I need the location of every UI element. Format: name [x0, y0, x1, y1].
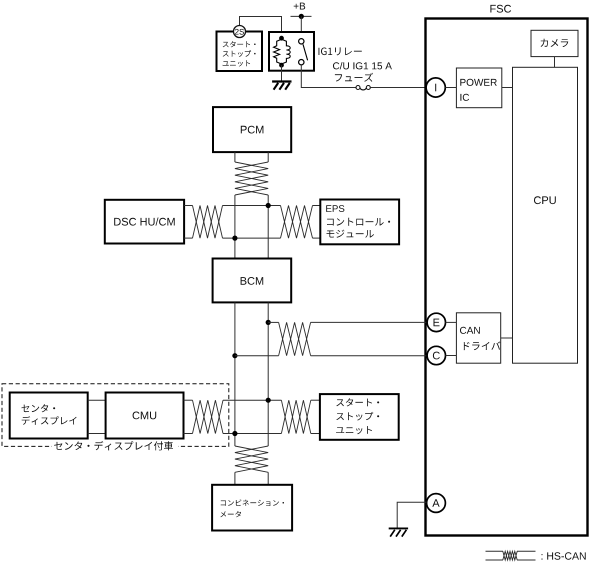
connector 2S	[234, 26, 246, 38]
junction: bus to pin C	[232, 353, 237, 358]
twisted pair: PCM to bus	[235, 162, 268, 195]
fuse F1	[356, 86, 370, 90]
junction: bus to pin E	[266, 320, 271, 325]
wire: pin C to CAN driver	[446, 355, 457, 357]
twisted pair: EPS to bus	[281, 206, 313, 239]
pin E	[427, 313, 445, 331]
wire: CAN-L to pin C	[311, 355, 427, 357]
wire: CAN bus vertical (upper)	[234, 195, 236, 259]
label C/U IG1 15 A fuse	[333, 62, 392, 69]
BCM box	[213, 259, 292, 303]
start-stop unit box (lower)	[320, 394, 399, 440]
wire: CAN-L CMU/start-stop	[223, 433, 281, 435]
wire: POWER IC to CPU	[502, 87, 513, 89]
wire: relay switch to FSC pin I	[301, 65, 355, 88]
start-stop unit box (top)	[217, 32, 263, 72]
legend label HS-CAN	[542, 552, 586, 559]
pin I	[426, 78, 445, 97]
junction: CAN-L at bus	[232, 236, 237, 241]
legend: HS-CAN twisted pair symbol	[486, 551, 536, 560]
wire: bus to C lattice	[235, 355, 279, 357]
relay switch S1	[299, 39, 308, 65]
POWER IC box	[456, 68, 501, 108]
wire: pin A to ground	[397, 502, 426, 528]
pin C	[427, 346, 445, 364]
wire: CAN driver to CPU	[501, 337, 513, 339]
twisted pair: bus to combination meter	[235, 446, 268, 472]
wire: CAN bus vertical (lower)	[234, 302, 236, 446]
ground (relay coil)	[272, 82, 291, 90]
wire: CAN-H to pin E	[311, 321, 427, 323]
wire: coil to ground	[281, 65, 283, 81]
label: with center display	[52, 441, 178, 452]
wire: start-stop stubs	[311, 399, 320, 401]
wire: CMU stubs	[184, 399, 193, 401]
wire: PCM bus stubs	[234, 152, 236, 162]
combination meter box	[212, 485, 292, 531]
junction: CAN-H lower at bus	[266, 398, 271, 403]
wire: pin I to POWER IC	[445, 87, 456, 89]
wire: bus to E lattice	[268, 321, 278, 323]
PCM box	[213, 107, 291, 152]
FSC box	[426, 19, 588, 536]
dashed option box: with center display	[2, 384, 229, 447]
twisted pair: CMU to bus	[193, 400, 224, 433]
EPS control module box	[320, 200, 399, 245]
wire: DSC stubs	[184, 205, 192, 207]
wire: fuse to pin I	[370, 87, 426, 89]
twisted pair: bus to FSC CAN pins	[279, 322, 311, 355]
CPU box U1	[513, 67, 578, 363]
camera box	[531, 30, 578, 56]
pin A	[427, 494, 446, 513]
wire: CAN-H CMU/start-stop	[223, 399, 281, 401]
wire: +B to relay switch	[300, 16, 302, 39]
ground (FSC)	[389, 528, 408, 536]
wires: center display to CMU	[88, 399, 106, 401]
wire: CAN-H DSC/EPS	[223, 205, 281, 207]
center display box	[10, 393, 88, 439]
label IG1 relay	[319, 47, 362, 55]
DSC HU/CM box	[105, 200, 184, 244]
wire: camera to CPU	[554, 57, 556, 68]
+B power feed node	[291, 3, 312, 19]
wire: 2S unit to relay coil	[240, 17, 282, 40]
relay box IG1	[269, 32, 314, 71]
CMU box	[106, 393, 184, 439]
wire: combi stubs	[234, 472, 236, 485]
wire: pin E to CAN driver	[446, 321, 457, 323]
relay coil L1	[274, 36, 291, 68]
junction: CAN-H at bus	[266, 203, 271, 208]
junction: CAN-L lower at bus	[232, 431, 237, 436]
CAN driver box	[456, 313, 500, 363]
twisted pair: DSC to bus	[193, 206, 223, 239]
FSC label	[490, 5, 511, 13]
twisted pair: start-stop unit to bus	[281, 400, 310, 433]
wire: EPS stubs	[313, 205, 321, 207]
wire: CAN-L DSC/EPS	[223, 237, 281, 239]
